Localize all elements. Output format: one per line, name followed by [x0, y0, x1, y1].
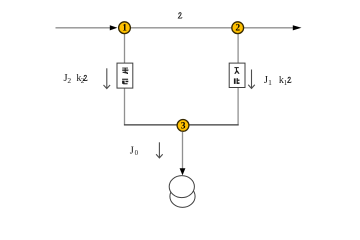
box right branch component — [229, 63, 245, 87]
node 3 — [177, 120, 189, 132]
wire right vertical upper (node 2 to right box) — [237, 34, 239, 64]
arrowhead into node 1 — [110, 25, 118, 30]
right box character top — [234, 67, 239, 74]
label l (pipe length) — [178, 13, 182, 18]
wire right vertical lower (right box to bottom header) — [237, 87, 239, 124]
source symbol upper circle — [169, 176, 194, 198]
wire node 3 down to source — [182, 132, 184, 169]
svg-text:1: 1 — [122, 24, 127, 34]
left box character bottom — [122, 79, 128, 85]
right box character bottom — [234, 78, 240, 84]
down arrow node 3 outflow — [156, 142, 163, 158]
arrowhead down into source — [180, 168, 186, 175]
wire left vertical lower (left box to bottom header) — [124, 88, 126, 124]
down arrow left branch — [104, 68, 111, 88]
node 1 — [119, 22, 131, 34]
svg-text:3: 3 — [181, 121, 186, 131]
left box character top — [122, 68, 128, 74]
svg-text:1: 1 — [268, 78, 272, 87]
source symbol lower circle — [170, 185, 195, 207]
wire bottom header line through node 3 — [124, 124, 239, 126]
wire inlet line into node 1 — [56, 27, 111, 29]
svg-text:2: 2 — [81, 77, 85, 85]
svg-text:2: 2 — [67, 76, 71, 85]
down arrow right branch — [248, 70, 255, 89]
svg-text:0: 0 — [135, 150, 139, 157]
wire node 1 to node 2 (pipe l) — [131, 27, 232, 29]
arrowhead outlet right — [293, 25, 302, 30]
wire outlet from node 2 — [244, 27, 294, 29]
box left branch component — [117, 63, 133, 88]
svg-text:1: 1 — [284, 79, 288, 87]
wire left vertical upper (node 1 to left box) — [124, 34, 126, 64]
svg-text:2: 2 — [235, 24, 240, 34]
node 2 — [232, 22, 244, 34]
svg-text:J: J — [130, 146, 134, 157]
